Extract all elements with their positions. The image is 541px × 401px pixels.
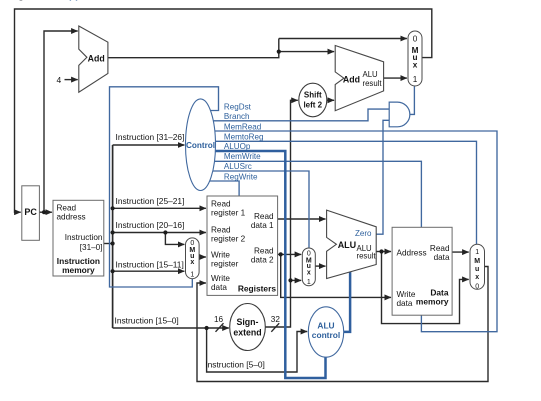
svg-text:x: x	[190, 259, 194, 266]
svg-text:extend: extend	[233, 327, 261, 337]
caption text fragments (cropped descenders)	[18, 0, 81, 2]
wire: Instruction [25-21] to Read register 1	[113, 207, 206, 209]
svg-text:Write: Write	[397, 290, 416, 299]
wire: Read data 1 to ALU input 1	[278, 218, 326, 220]
svg-text:data: data	[434, 253, 450, 262]
svg-text:address: address	[57, 213, 86, 222]
svg-text:ALU: ALU	[317, 320, 334, 330]
svg-text:result: result	[363, 79, 383, 88]
wire: Instruction [20-16] branch to mux input 0	[165, 233, 184, 245]
wire: Instruction [15-11] to mux input 1	[113, 270, 185, 272]
svg-text:Zero: Zero	[355, 229, 372, 238]
svg-text:1: 1	[413, 75, 418, 84]
svg-text:Address: Address	[397, 248, 427, 257]
wire: Read data 2 branch to data memory Write data	[281, 254, 391, 297]
svg-text:pp: pp	[69, 0, 81, 2]
svg-text:PC: PC	[24, 207, 37, 217]
mux MemtoReg (right)	[470, 244, 485, 290]
svg-text:result: result	[357, 252, 377, 261]
svg-text:Write: Write	[211, 250, 230, 259]
svg-text:Instruction: Instruction	[65, 233, 103, 242]
control unit	[186, 99, 216, 191]
svg-text:MemtoReg: MemtoReg	[224, 132, 264, 141]
svg-text:data 1: data 1	[251, 221, 274, 230]
svg-text:1: 1	[307, 279, 311, 286]
registers	[207, 196, 278, 295]
svg-text:control: control	[312, 330, 340, 340]
wire: ALU control output to ALU (thick)	[340, 272, 350, 332]
svg-text:ALUOp: ALUOp	[224, 142, 251, 151]
shift left 2	[299, 83, 327, 117]
svg-text:Read: Read	[211, 200, 231, 209]
svg-text:Instruction [5–0]: Instruction [5–0]	[205, 359, 265, 369]
svg-text:x: x	[475, 274, 479, 281]
svg-text:Instruction [20–16]: Instruction [20–16]	[116, 220, 185, 230]
svg-text:register: register	[211, 259, 239, 268]
wire: Instruction [31-26] to Control	[113, 144, 185, 146]
wire: ALUSrc to ALUSrc mux select	[205, 171, 309, 248]
wire: PC output to instruction memory	[39, 211, 52, 213]
svg-text:Shift: Shift	[304, 90, 322, 99]
svg-text:register 1: register 1	[211, 209, 246, 218]
svg-text:[31–0]: [31–0]	[80, 243, 103, 252]
instruction field labels	[115, 132, 265, 369]
wire: instruction bus vertical	[112, 145, 114, 328]
svg-text:RegWrite: RegWrite	[224, 173, 258, 182]
svg-text:memory: memory	[416, 297, 449, 307]
wire: ALU result bypass to final mux input 0	[382, 252, 469, 324]
wire: AND gate output to top mux select	[410, 86, 415, 114]
wire: data memory Read data to final mux input 1	[452, 251, 469, 253]
wire: ALU result to data memory Address	[376, 251, 391, 253]
wire: MemWrite to data memory write port	[205, 161, 421, 227]
wire: instruction memory output stub	[104, 243, 113, 245]
wire: final mux output wrap-around to registers Write data	[197, 267, 488, 382]
svg-text:Instruction [15–0]: Instruction [15–0]	[115, 316, 179, 326]
mux RegDst (write register)	[186, 238, 200, 279]
svg-text:ALUSrc: ALUSrc	[224, 162, 252, 171]
svg-text:Registers: Registers	[238, 283, 277, 293]
wire: PC feedback loop from top-right mux output	[15, 9, 432, 212]
svg-text:u: u	[475, 266, 479, 273]
wire: write-register mux output	[199, 256, 206, 258]
svg-text:Read: Read	[254, 247, 274, 256]
svg-text:RegDst: RegDst	[224, 102, 252, 111]
svg-text:register 2: register 2	[211, 234, 246, 243]
wire: PC+4 to branch Add top input	[279, 51, 334, 53]
wire: 16-bit slash	[216, 323, 224, 332]
svg-text:M: M	[474, 258, 480, 265]
wire: Instruction [5-0] to ALU control	[207, 328, 308, 372]
svg-text:data: data	[397, 299, 413, 308]
AND gate	[389, 102, 410, 127]
wire: RegWrite to Registers write enable	[205, 181, 239, 196]
wire: ALUSrc mux output to ALU input 2	[315, 265, 325, 267]
svg-text:Instruction [31–26]: Instruction [31–26]	[116, 132, 185, 142]
sign extend	[230, 304, 266, 351]
svg-text:0: 0	[190, 240, 194, 247]
wire: MemtoReg to final mux select	[205, 141, 477, 244]
svg-text:Read: Read	[430, 244, 450, 253]
wire: Instruction [15-0] to sign extend	[113, 327, 229, 329]
svg-text:g: g	[18, 0, 24, 2]
control signal labels	[224, 102, 264, 181]
svg-text:Read: Read	[254, 212, 274, 221]
svg-text:1: 1	[475, 249, 479, 256]
svg-text:x: x	[413, 60, 418, 69]
svg-text:memory: memory	[62, 265, 95, 275]
svg-text:Instruction [15–11]: Instruction [15–11]	[116, 260, 184, 270]
svg-text:left 2: left 2	[303, 100, 322, 109]
instruction memory	[53, 200, 104, 276]
svg-text:Add: Add	[88, 53, 105, 63]
wire: Zero to AND gate	[376, 120, 389, 234]
svg-text:Control: Control	[186, 141, 215, 150]
svg-text:4: 4	[57, 75, 62, 85]
wire: shift left 2 output to branch Add	[327, 99, 334, 101]
svg-text:0: 0	[413, 35, 418, 44]
mux PCSrc (top right)	[408, 31, 422, 86]
svg-text:Instruction [25–21]: Instruction [25–21]	[116, 196, 185, 206]
mux ALUSrc	[302, 248, 315, 286]
wire: sign-extend output up to shift left 2	[265, 100, 298, 327]
svg-text:x: x	[307, 270, 311, 277]
svg-text:data 2: data 2	[251, 256, 274, 265]
adder Add (PC+4)	[79, 26, 108, 92]
ALU	[327, 210, 377, 278]
wire: PC+4 from Add to junction	[108, 39, 279, 58]
svg-text:ALU: ALU	[363, 70, 379, 79]
wire: Read data 2 to ALUSrc mux input 0	[278, 253, 302, 255]
wire: Instruction [20-16] to Read register 2	[113, 232, 206, 234]
svg-text:Branch: Branch	[224, 112, 250, 121]
svg-text:0: 0	[475, 284, 479, 291]
svg-text:Add: Add	[343, 74, 360, 84]
wire: constant 4 into Add	[65, 79, 78, 81]
svg-text:16: 16	[214, 315, 224, 324]
wire: ALUOp to ALU control (thick)	[205, 151, 326, 378]
wire: sign-extend branch to ALUSrc mux input 1	[291, 279, 302, 281]
wire: MemRead to data memory read port	[205, 131, 497, 332]
svg-text:data: data	[211, 283, 227, 292]
svg-text:MemWrite: MemWrite	[224, 152, 261, 161]
wire: branch Add result to top mux input 1	[384, 77, 407, 79]
svg-text:32: 32	[271, 315, 281, 324]
wire: PC output up to Add	[44, 31, 78, 212]
svg-text:MemRead: MemRead	[224, 123, 261, 132]
wire: RegDst wrap-around to write-register mux select	[110, 87, 219, 287]
adder Add (branch target)	[335, 46, 383, 111]
wire: Branch to AND gate	[205, 109, 390, 121]
svg-text:Write: Write	[211, 274, 230, 283]
svg-text:Sign-: Sign-	[237, 317, 259, 327]
svg-text:1: 1	[190, 271, 194, 278]
svg-text:Read: Read	[211, 225, 231, 234]
wire: PC+4 to top mux input 0	[279, 38, 407, 40]
svg-text:ALU: ALU	[338, 240, 357, 250]
ALU control	[308, 307, 343, 357]
PC register	[22, 186, 40, 241]
svg-text:Read: Read	[57, 204, 77, 213]
wire: 32-bit slash	[271, 323, 279, 332]
data memory	[392, 227, 452, 315]
